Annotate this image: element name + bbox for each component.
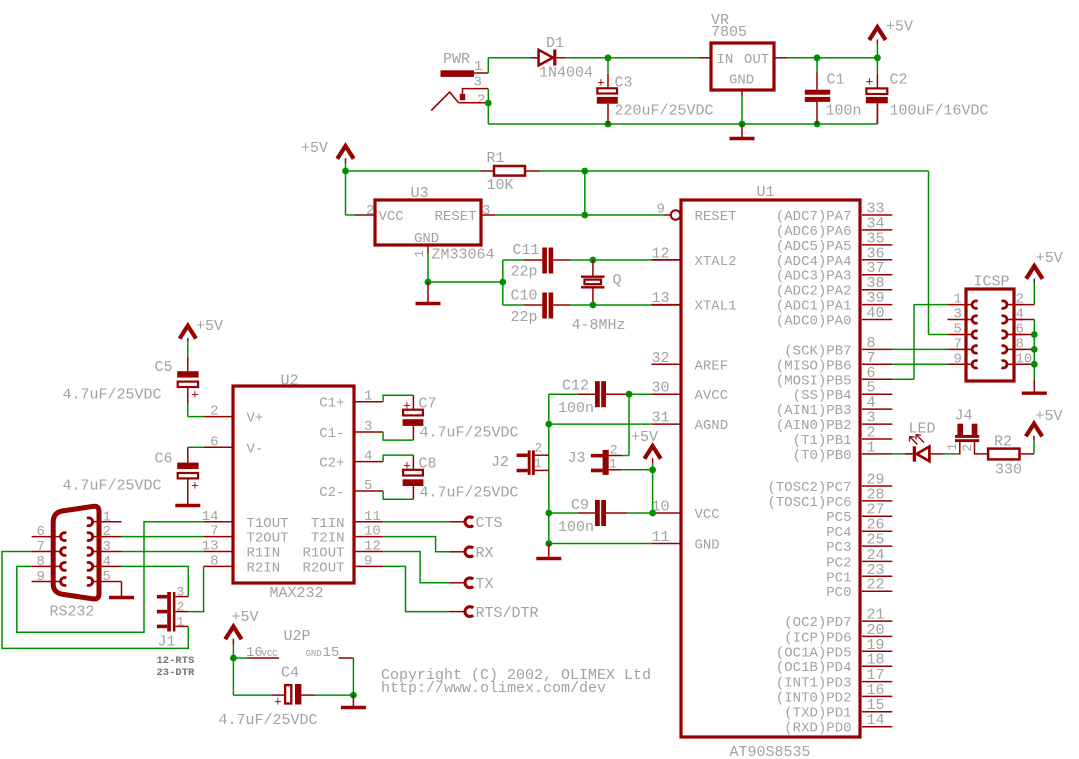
svg-text:IN: IN xyxy=(717,52,734,68)
ground for C9/C12 xyxy=(536,544,561,559)
RS232 pin 7 xyxy=(32,539,67,555)
U2 pin 6 V- xyxy=(204,434,264,457)
svg-text:(INT0)PD2: (INT0)PD2 xyxy=(776,690,852,706)
svg-text:+5V: +5V xyxy=(232,609,259,626)
pad RTS/DTR xyxy=(449,605,538,622)
wire MOSI PB5 to ICSP pin1 xyxy=(892,305,947,380)
svg-text:PC2: PC2 xyxy=(826,555,851,571)
wire ICSP ground pins xyxy=(1014,320,1038,368)
svg-text:(AIN0)PB2: (AIN0)PB2 xyxy=(776,418,852,434)
svg-text:J4: J4 xyxy=(955,408,973,425)
svg-text:7: 7 xyxy=(954,336,962,352)
svg-text:C2+: C2+ xyxy=(319,456,344,472)
U2 pin 12 R1OUT xyxy=(302,539,383,562)
svg-text:13: 13 xyxy=(652,290,670,307)
svg-text:100n: 100n xyxy=(558,400,594,417)
svg-text:XTAL2: XTAL2 xyxy=(695,254,737,270)
ICSP pin 10 xyxy=(1002,351,1033,368)
U1 pin 6 (MOSI)PB5 xyxy=(776,365,892,390)
ICSP pin 5 xyxy=(947,322,977,339)
wire RS232 pin7 to J1 pin1 xyxy=(2,552,188,649)
wire RS232 pin4 to J1 pin3 xyxy=(122,566,189,596)
wire MISO PB6 to ICSP pin9 xyxy=(892,363,947,365)
svg-text:PC3: PC3 xyxy=(826,540,851,556)
wire C5 to V+ xyxy=(188,404,204,417)
jumper J2 xyxy=(491,441,549,475)
wire T1IN to CTS xyxy=(383,521,449,523)
LED xyxy=(909,421,936,462)
svg-text:(ADC3)PA3: (ADC3)PA3 xyxy=(776,269,852,285)
svg-text:+: + xyxy=(866,75,874,90)
U1 pin 12 XTAL2 xyxy=(651,245,736,270)
U1 pin 40 (ADC0)PA0 xyxy=(776,305,892,330)
svg-text:6: 6 xyxy=(37,524,45,540)
svg-text:6: 6 xyxy=(210,434,218,450)
U1 pin 16 (INT0)PD2 xyxy=(776,682,892,707)
U1 pin 25 PC3 xyxy=(826,532,892,557)
wire RS232 pin2 to T2OUT xyxy=(122,536,204,538)
svg-text:TX: TX xyxy=(476,576,494,593)
svg-text:U2P: U2P xyxy=(284,628,311,645)
wire XTAL2 net xyxy=(570,257,681,264)
U2 pin 8 R2IN xyxy=(204,553,281,576)
svg-text:1: 1 xyxy=(534,456,542,471)
ground for ICSP xyxy=(1022,364,1047,393)
svg-text:AGND: AGND xyxy=(695,418,729,434)
U1 pin 24 PC2 xyxy=(826,547,892,572)
svg-text:R2OUT: R2OUT xyxy=(302,560,344,576)
svg-text:(TXD)PD1: (TXD)PD1 xyxy=(784,706,851,722)
svg-text:+: + xyxy=(403,399,411,414)
svg-text:5: 5 xyxy=(103,569,111,585)
capacitor C11 22p xyxy=(503,242,570,281)
svg-text:C5: C5 xyxy=(155,359,173,376)
pad TX xyxy=(449,576,493,593)
svg-text:2: 2 xyxy=(210,404,218,420)
U1 pin 26 PC4 xyxy=(826,517,892,542)
svg-text:PC0: PC0 xyxy=(826,585,851,601)
svg-text:U2: U2 xyxy=(281,373,299,390)
power +5V symbol (LED) xyxy=(1020,408,1063,454)
svg-text:C6: C6 xyxy=(155,451,173,468)
wire analog supply vertical xyxy=(545,394,552,547)
wire GND pin11 net xyxy=(549,543,652,545)
svg-text:1: 1 xyxy=(954,292,962,308)
capacitor C8 4.7uF/25VDC xyxy=(383,455,518,501)
jumper J3 xyxy=(568,443,623,475)
svg-text:(TOSC1)PC6: (TOSC1)PC6 xyxy=(767,495,851,511)
svg-text:RTS/DTR: RTS/DTR xyxy=(476,605,539,622)
svg-text:C1-: C1- xyxy=(319,426,344,442)
U1 pin 3 (AIN0)PB2 xyxy=(776,410,892,435)
RS232 pin 5 xyxy=(87,569,122,585)
U1 pin 17 (INT1)PD3 xyxy=(776,667,892,692)
ground for U3 xyxy=(416,282,441,304)
wire RESET to ICSP pin5 xyxy=(929,334,948,336)
U1 pin 27 PC5 xyxy=(826,502,892,527)
svg-text:15: 15 xyxy=(323,645,340,661)
U1 pin 10 VCC xyxy=(651,499,719,524)
U1 pin 31 AGND xyxy=(651,410,728,435)
svg-text:5: 5 xyxy=(364,478,372,494)
svg-text:C1: C1 xyxy=(827,72,845,89)
svg-text:4: 4 xyxy=(103,554,111,570)
svg-text:VCC: VCC xyxy=(695,507,720,523)
svg-text:R2: R2 xyxy=(994,434,1012,451)
wire PB0 to LED xyxy=(892,453,912,455)
power +5V symbol (left, reset circuit) xyxy=(301,140,354,174)
svg-text:(MOSI)PB5: (MOSI)PB5 xyxy=(776,373,852,389)
svg-text:PC5: PC5 xyxy=(826,510,851,526)
ground for 7805 xyxy=(730,96,755,139)
crystal Q 4-8MHz xyxy=(572,260,626,334)
svg-text:C10: C10 xyxy=(511,288,538,305)
svg-text:14: 14 xyxy=(867,712,885,729)
svg-text:T1IN: T1IN xyxy=(311,516,345,532)
svg-text:AREF: AREF xyxy=(695,358,729,374)
wire T2IN to RX xyxy=(383,537,449,552)
svg-text:2: 2 xyxy=(366,203,374,219)
svg-text:(T1)PB1: (T1)PB1 xyxy=(793,433,852,449)
RS232 pin 2 xyxy=(87,524,122,540)
connector PWR (power jack) xyxy=(431,51,488,111)
svg-text:8: 8 xyxy=(37,554,45,570)
ICSP pin 1 xyxy=(947,292,977,309)
capacitor C5 4.7uF/25VDC xyxy=(63,356,200,404)
power +5V symbol (U2P) xyxy=(225,609,258,661)
svg-text:(ADC4)PA4: (ADC4)PA4 xyxy=(776,254,852,270)
svg-text:VCC: VCC xyxy=(379,209,404,225)
svg-text:220uF/25VDC: 220uF/25VDC xyxy=(615,103,714,120)
svg-text:12-RTS: 12-RTS xyxy=(157,655,195,667)
U1 pin 34 (ADC6)PA6 xyxy=(776,215,892,240)
U1 pin 36 (ADC4)PA4 xyxy=(776,245,892,270)
U1 pin 5 (SS)PB4 xyxy=(793,380,893,405)
svg-text:PWR: PWR xyxy=(443,51,470,68)
svg-text:(ADC5)PA5: (ADC5)PA5 xyxy=(776,239,852,255)
svg-text:4.7uF/25VDC: 4.7uF/25VDC xyxy=(420,485,519,502)
wire U3 GND to ground xyxy=(425,254,507,285)
svg-text:ICSP: ICSP xyxy=(974,274,1010,291)
svg-text:7: 7 xyxy=(37,539,45,555)
note copyright text xyxy=(381,667,651,697)
capacitor C12 100n xyxy=(549,378,629,418)
U1 pin 13 XTAL1 xyxy=(651,290,736,315)
svg-text:U3: U3 xyxy=(411,185,429,202)
svg-text:GND: GND xyxy=(729,73,754,89)
U1 pin 39 (ADC1)PA1 xyxy=(776,290,892,315)
svg-text:1: 1 xyxy=(867,439,876,456)
U2 pin 11 T1IN xyxy=(311,509,383,532)
svg-text:D1: D1 xyxy=(546,35,564,52)
U1 pin 14 (RXD)PD0 xyxy=(784,712,892,737)
svg-text:U1: U1 xyxy=(757,184,775,201)
U2 pin 4 C2+ xyxy=(319,449,383,472)
jumper J4 xyxy=(946,408,979,452)
U1 pin 29 (TOSC2)PC7 xyxy=(767,472,892,497)
wire SCK PB7 to ICSP pin7 xyxy=(892,348,947,350)
wire J3 pin2 to AVCC xyxy=(622,394,629,455)
svg-text:C8: C8 xyxy=(419,456,437,473)
svg-text:C2: C2 xyxy=(890,72,908,89)
ICSP pin 4 xyxy=(1002,307,1024,324)
U2 pin 1 C1+ xyxy=(319,389,383,412)
svg-text:GND: GND xyxy=(695,538,720,554)
ICSP pin 9 xyxy=(947,351,977,368)
svg-text:(TOSC2)PC7: (TOSC2)PC7 xyxy=(767,480,851,496)
U1 pin 7 (MISO)PB6 xyxy=(776,350,892,375)
svg-text:1: 1 xyxy=(946,443,960,451)
connector ICSP header xyxy=(966,274,1014,382)
svg-text:31: 31 xyxy=(652,410,670,427)
svg-text:22: 22 xyxy=(867,577,885,594)
U2 pin 5 C2- xyxy=(319,478,383,501)
wire +5V to R1 and U3 VCC xyxy=(346,171,481,215)
svg-text:R2IN: R2IN xyxy=(247,560,281,576)
svg-text:OUT: OUT xyxy=(744,52,769,68)
svg-text:100n: 100n xyxy=(558,519,594,536)
wire R1OUT to TX xyxy=(383,552,449,583)
capacitor C9 100n xyxy=(549,497,652,536)
svg-text:+5V: +5V xyxy=(1036,250,1063,267)
wire AVCC net xyxy=(626,391,652,398)
U2 pin 9 R2OUT xyxy=(302,553,383,576)
svg-text:+: + xyxy=(191,479,199,494)
U1 pin 19 (OC1A)PD5 xyxy=(776,637,892,662)
voltage regulator VR 7805 xyxy=(699,12,787,96)
svg-text:VCC: VCC xyxy=(262,649,279,659)
svg-text:4.7uF/25VDC: 4.7uF/25VDC xyxy=(63,478,162,495)
svg-text:11: 11 xyxy=(364,509,381,525)
U1 pin 1 (T0)PB0 xyxy=(793,439,893,464)
U1 pin 23 PC1 xyxy=(826,562,892,587)
svg-text:12: 12 xyxy=(652,245,670,262)
pad RX xyxy=(449,545,493,562)
RS232 pin 9 xyxy=(32,569,67,585)
U1 pin 30 AVCC xyxy=(651,380,728,405)
svg-text:7805: 7805 xyxy=(711,24,747,41)
ICSP pin 3 xyxy=(947,307,977,324)
svg-text:(ICP)PD6: (ICP)PD6 xyxy=(784,630,851,646)
svg-text:4-8MHz: 4-8MHz xyxy=(572,317,626,334)
svg-text:1: 1 xyxy=(103,509,111,525)
svg-text:3: 3 xyxy=(103,539,111,555)
U1 pin 32 AREF xyxy=(651,350,728,375)
power +5V symbol (top right) xyxy=(869,19,913,58)
RS232 pin 3 xyxy=(87,539,122,555)
RS232 pin 6 xyxy=(32,524,67,540)
RS232 pin 1 xyxy=(87,509,122,525)
capacitor C4 4.7uF/25VDC xyxy=(219,665,354,730)
svg-text:GND: GND xyxy=(306,649,322,659)
svg-text:(T0)PB0: (T0)PB0 xyxy=(793,448,852,464)
svg-text:(AIN1)PB3: (AIN1)PB3 xyxy=(776,403,852,419)
svg-text:R1OUT: R1OUT xyxy=(302,546,344,562)
resistor R1 10K xyxy=(480,150,540,194)
svg-text:RESET: RESET xyxy=(434,209,476,225)
svg-text:13: 13 xyxy=(202,539,219,555)
svg-text:4.7uF/25VDC: 4.7uF/25VDC xyxy=(63,387,162,404)
svg-text:PC1: PC1 xyxy=(826,570,851,586)
wire J4 pin2 to R2 xyxy=(975,442,989,454)
ground for RS232 pin5 xyxy=(109,582,134,598)
svg-text:12: 12 xyxy=(364,539,381,555)
svg-text:T2IN: T2IN xyxy=(311,531,345,547)
wire R2OUT to RTS/DTR xyxy=(383,566,449,611)
svg-text:10: 10 xyxy=(364,524,381,540)
svg-text:(ADC2)PA2: (ADC2)PA2 xyxy=(776,284,852,300)
IC U2P MAX232 power pins xyxy=(233,628,353,661)
svg-text:7: 7 xyxy=(210,524,218,540)
svg-text:9: 9 xyxy=(954,351,962,367)
svg-text:http://www.olimex.com/dev: http://www.olimex.com/dev xyxy=(381,680,606,697)
wire V- to C6 xyxy=(188,447,204,463)
svg-text:8: 8 xyxy=(210,553,218,569)
svg-text:(INT1)PD3: (INT1)PD3 xyxy=(776,676,852,692)
svg-text:1N4004: 1N4004 xyxy=(539,65,593,82)
svg-text:(RXD)PD0: (RXD)PD0 xyxy=(784,721,851,737)
U1 pin 21 (OC2)PD7 xyxy=(784,607,892,632)
svg-text:4: 4 xyxy=(364,449,372,465)
wire D1 anode stub xyxy=(531,57,539,59)
RS232 pin 4 xyxy=(87,554,122,570)
U2 pin 14 T1OUT xyxy=(202,509,289,532)
IC U2 MAX232 body xyxy=(233,373,354,603)
svg-text:(ADC1)PA1: (ADC1)PA1 xyxy=(776,299,852,315)
svg-text:4.7uF/25VDC: 4.7uF/25VDC xyxy=(219,712,318,729)
svg-text:23-DTR: 23-DTR xyxy=(157,667,196,679)
U1 pin 11 GND xyxy=(651,529,719,554)
U1 pin 35 (ADC5)PA5 xyxy=(776,230,892,255)
svg-text:RS232: RS232 xyxy=(50,604,95,621)
svg-text:C3: C3 xyxy=(615,75,633,92)
power +5V symbol (J3) xyxy=(621,429,661,516)
svg-text:R1IN: R1IN xyxy=(247,546,281,562)
connector RS232 DB9 body xyxy=(50,506,100,620)
svg-text:Q: Q xyxy=(613,272,622,289)
svg-text:4.7uF/25VDC: 4.7uF/25VDC xyxy=(420,425,519,442)
svg-text:AVCC: AVCC xyxy=(695,388,729,404)
capacitor C7 4.7uF/25VDC xyxy=(383,395,518,441)
U1 pin 28 (TOSC1)PC6 xyxy=(767,486,892,511)
svg-text:C1+: C1+ xyxy=(319,396,344,412)
svg-text:30: 30 xyxy=(652,380,670,397)
svg-text:2: 2 xyxy=(961,444,975,452)
ICSP pin 7 xyxy=(947,336,977,353)
svg-text:CTS: CTS xyxy=(476,515,503,532)
svg-text:+: + xyxy=(403,459,411,474)
svg-text:330: 330 xyxy=(995,462,1022,479)
svg-text:PC4: PC4 xyxy=(826,525,851,541)
wire ground to crystal caps xyxy=(502,260,504,305)
U2 pin 3 C1- xyxy=(319,419,383,442)
U1 pin 22 PC0 xyxy=(826,577,892,602)
capacitor C3 220uF/25VDC xyxy=(597,60,714,121)
svg-text:5: 5 xyxy=(954,322,962,338)
svg-text:V-: V- xyxy=(247,441,264,457)
resistor R2 330 xyxy=(988,434,1022,479)
svg-text:C4: C4 xyxy=(281,665,299,682)
U1 pin 8 (SCK)PB7 xyxy=(784,335,892,360)
wire AGND net xyxy=(549,423,652,425)
svg-text:9: 9 xyxy=(37,569,45,585)
svg-text:100n: 100n xyxy=(826,103,862,120)
ICSP pin 2 xyxy=(1002,292,1024,309)
svg-text:+5V: +5V xyxy=(886,19,913,36)
wire +5V down to C4 xyxy=(233,658,271,695)
svg-text:AT90S8535: AT90S8535 xyxy=(730,744,811,759)
ICSP pin 6 xyxy=(1002,322,1024,339)
pad CTS xyxy=(449,515,502,532)
ground for C6 xyxy=(175,504,200,507)
svg-text:3: 3 xyxy=(954,307,962,323)
svg-text:MAX232: MAX232 xyxy=(270,585,324,602)
svg-text:J1: J1 xyxy=(158,634,176,651)
capacitor C6 4.7uF/25VDC xyxy=(63,451,200,505)
U2 pin 7 T2OUT xyxy=(204,524,289,547)
jumper J1 xyxy=(157,585,188,651)
svg-text:2: 2 xyxy=(535,441,543,456)
U1 pin 4 (AIN1)PB3 xyxy=(776,395,892,420)
svg-text:3: 3 xyxy=(482,203,490,219)
svg-text:V+: V+ xyxy=(247,411,264,427)
svg-text:C12: C12 xyxy=(562,378,589,395)
capacitor C10 22p xyxy=(503,288,570,327)
svg-text:11: 11 xyxy=(652,529,670,546)
RS232 pin 8 xyxy=(32,554,67,570)
svg-text:2: 2 xyxy=(477,93,485,109)
svg-text:T1OUT: T1OUT xyxy=(247,516,289,532)
svg-text:J3: J3 xyxy=(568,450,586,467)
wire RESET net xyxy=(495,168,929,335)
wire 7805 OUT to +5V node xyxy=(787,54,881,61)
wire XTAL1 net xyxy=(570,302,681,309)
svg-text:+5V: +5V xyxy=(631,429,658,446)
svg-text:3: 3 xyxy=(364,419,372,435)
svg-text:(OC1B)PD4: (OC1B)PD4 xyxy=(776,660,852,676)
svg-text:J2: J2 xyxy=(491,454,509,471)
svg-text:LED: LED xyxy=(909,421,936,438)
svg-text:C9: C9 xyxy=(571,497,589,514)
svg-text:RX: RX xyxy=(476,545,494,562)
svg-text:16: 16 xyxy=(246,645,263,661)
svg-text:1: 1 xyxy=(177,615,185,630)
wire LED to J4 pin1 xyxy=(931,442,960,454)
svg-text:(SS)PB4: (SS)PB4 xyxy=(793,388,852,404)
ICSP pin 8 xyxy=(1002,336,1024,353)
ground for C4 xyxy=(341,695,366,707)
svg-text:2: 2 xyxy=(103,524,111,540)
wire R2IN to J1 pin2 xyxy=(188,566,203,611)
U1 pin 2 (T1)PB1 xyxy=(793,425,893,450)
svg-text:(SCK)PB7: (SCK)PB7 xyxy=(784,343,851,359)
svg-text:14: 14 xyxy=(202,509,219,525)
svg-text:+: + xyxy=(191,388,199,403)
IC U1 AT90S8535 body xyxy=(681,184,860,759)
svg-text:9: 9 xyxy=(364,553,372,569)
supervisor U3 ZM33064 xyxy=(355,185,495,264)
U2 pin 10 T2IN xyxy=(311,524,383,547)
svg-text:(MISO)PB6: (MISO)PB6 xyxy=(776,358,852,374)
svg-text:C11: C11 xyxy=(513,242,540,259)
capacitor C2 100uF/16VDC xyxy=(866,58,989,124)
svg-text:GND: GND xyxy=(414,231,439,247)
wire RS232 pin8 to T1OUT xyxy=(17,522,204,633)
U1 pin 20 (ICP)PD6 xyxy=(784,622,892,647)
svg-text:+5V: +5V xyxy=(196,318,223,335)
U1 pin 18 (OC1B)PD4 xyxy=(776,652,892,677)
wire ground rail (top section) xyxy=(488,103,877,127)
